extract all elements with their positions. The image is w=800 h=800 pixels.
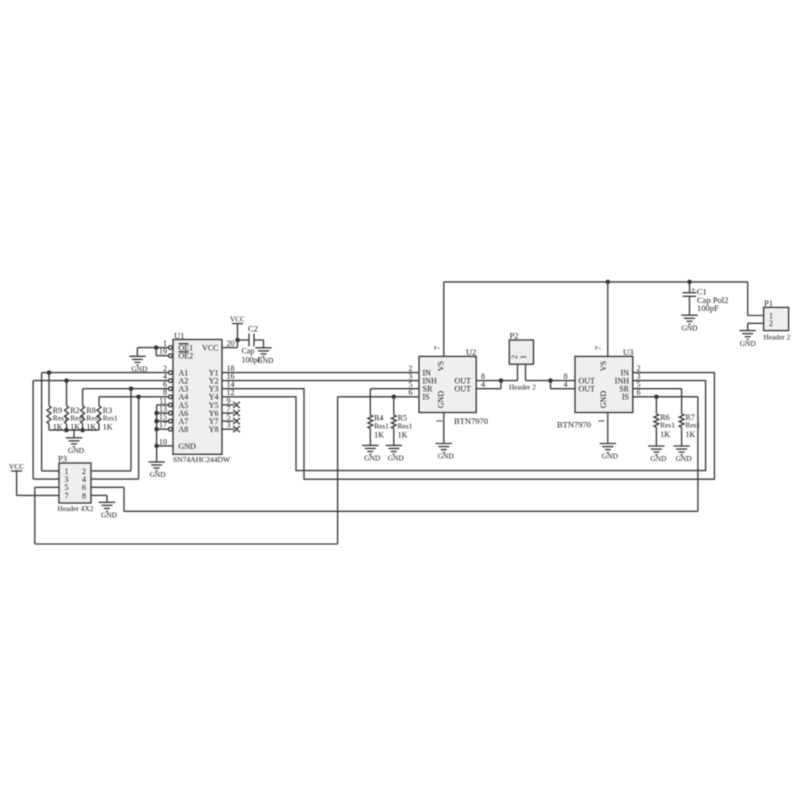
junction rail/C1 xyxy=(687,280,692,285)
svg-text:GND: GND xyxy=(179,442,197,451)
wire A2 net xyxy=(33,381,169,480)
svg-text:1: 1 xyxy=(597,419,606,423)
junction A4/P3.4 xyxy=(136,395,141,400)
svg-text:1K: 1K xyxy=(685,430,695,439)
ground C2 xyxy=(255,348,274,365)
svg-text:IS: IS xyxy=(622,393,629,402)
ground R5 xyxy=(386,445,405,462)
svg-text:GND: GND xyxy=(101,511,118,520)
wire to C2 xyxy=(238,339,250,341)
resistor R3 Res1 1K xyxy=(97,406,118,432)
svg-text:GND: GND xyxy=(650,454,667,463)
U1 input pin bubbles xyxy=(169,346,173,431)
junction rail/U3.VS xyxy=(606,280,611,285)
wire U3.VS to rail xyxy=(607,282,609,357)
wire A1 net xyxy=(42,373,170,471)
resistor R8 Res1 1K xyxy=(81,406,102,432)
connector P3 Header 4X2 xyxy=(58,454,94,514)
junction A2/R2 xyxy=(64,378,69,383)
svg-text:10: 10 xyxy=(159,437,167,446)
connector P1 Header 2 xyxy=(764,298,791,342)
svg-text:Res1: Res1 xyxy=(685,421,700,430)
wire C2 to ground xyxy=(254,340,264,348)
ground R4 xyxy=(362,445,381,462)
wire Y2 to U2.INH xyxy=(222,380,419,382)
wire resistor common rail xyxy=(49,430,99,438)
U1 pin numbers xyxy=(159,339,235,446)
svg-text:Header 4X2: Header 4X2 xyxy=(58,504,94,513)
svg-text:1: 1 xyxy=(519,355,528,359)
svg-text:P2: P2 xyxy=(510,330,519,340)
junction A7 xyxy=(154,419,159,424)
svg-text:VS: VS xyxy=(437,361,446,371)
ground U2 xyxy=(436,444,455,461)
wire A3 net xyxy=(83,389,170,471)
wire VS power rail xyxy=(444,282,764,316)
U3 pin numbers xyxy=(564,346,641,423)
capacitor C1 Cap Pol2 100pF xyxy=(683,282,729,315)
svg-text:100pF: 100pF xyxy=(697,303,719,313)
junction R2 bottom xyxy=(64,428,69,433)
wire A5-A8 to ground xyxy=(157,405,173,462)
svg-text:3: 3 xyxy=(227,421,231,430)
resistor R2 Res1 1K xyxy=(65,381,86,432)
svg-text:P3: P3 xyxy=(58,454,67,464)
wire U3.GND to ground xyxy=(607,413,609,444)
resistor R6 Res1 1K xyxy=(654,397,675,446)
svg-text:GND: GND xyxy=(438,452,455,461)
junction pin10 xyxy=(154,444,159,449)
junction A8 xyxy=(154,427,159,432)
svg-text:Res1: Res1 xyxy=(660,421,675,430)
wire P3 pin6 to U3.IS xyxy=(91,397,698,512)
svg-text:VS: VS xyxy=(599,361,608,371)
svg-text:1K: 1K xyxy=(374,430,384,439)
svg-text:BTN7970: BTN7970 xyxy=(557,420,591,430)
wire U2.OUT pins tied xyxy=(476,381,517,389)
wire P3 pin5 to U2.IS xyxy=(35,397,338,544)
ground R7 xyxy=(673,446,692,463)
svg-text:4: 4 xyxy=(564,380,568,389)
svg-text:2: 2 xyxy=(769,319,773,328)
svg-text:VCC: VCC xyxy=(9,462,24,471)
svg-text:Res1: Res1 xyxy=(103,413,118,422)
svg-text:GND: GND xyxy=(599,391,608,409)
svg-text:Cap: Cap xyxy=(242,347,255,356)
IC U2 BTN7970 half-bridge driver xyxy=(419,347,488,426)
svg-text:U1: U1 xyxy=(174,331,184,341)
wire A4 net xyxy=(91,397,169,479)
wire Y3 to U3.IN xyxy=(222,373,714,480)
ground R-rail xyxy=(66,438,85,455)
svg-text:2: 2 xyxy=(510,355,519,359)
resistor R9 Res1 1K xyxy=(47,373,68,432)
svg-text:19: 19 xyxy=(159,347,167,356)
svg-text:7: 7 xyxy=(65,491,69,500)
svg-text:GND: GND xyxy=(676,454,693,463)
svg-text:6: 6 xyxy=(637,388,641,397)
resistor R7 Res1 1K xyxy=(679,413,700,446)
svg-text:IS: IS xyxy=(423,393,430,402)
wire U2.SR to R4 xyxy=(370,389,419,415)
svg-text:P1: P1 xyxy=(764,298,773,308)
svg-text:GND: GND xyxy=(602,452,619,461)
svg-text:1K: 1K xyxy=(103,422,113,431)
svg-text:Res1: Res1 xyxy=(398,421,413,430)
svg-text:GND: GND xyxy=(740,339,757,348)
junction OE node xyxy=(154,345,159,350)
connector P2 Header 2 xyxy=(509,330,536,391)
junction A3/P3.2 xyxy=(129,386,134,391)
svg-text:20: 20 xyxy=(227,339,235,348)
wire U3.SR to R7 xyxy=(633,389,682,414)
svg-text:GND: GND xyxy=(364,454,381,463)
wire P2 to U3 OUT xyxy=(526,381,576,389)
power VCC P3 xyxy=(9,462,24,471)
ground P3-pin8 xyxy=(99,502,118,519)
svg-text:Res1: Res1 xyxy=(374,421,389,430)
svg-text:7: 7 xyxy=(594,346,603,350)
svg-text:Y8: Y8 xyxy=(209,425,219,434)
svg-text:17: 17 xyxy=(159,421,167,430)
svg-text:Header 2: Header 2 xyxy=(764,333,791,342)
resistor R4 Res1 1K xyxy=(368,414,389,446)
svg-text:GND: GND xyxy=(437,391,446,409)
svg-text:1K: 1K xyxy=(398,430,408,439)
junction VCC/C2 xyxy=(235,338,240,343)
IC U1 SN74AHC244DW octal buffer xyxy=(173,331,231,465)
ground U3 xyxy=(600,444,619,461)
svg-text:GND: GND xyxy=(150,470,167,479)
junction U3 OUT tie xyxy=(548,378,553,383)
svg-text:C2: C2 xyxy=(248,323,258,333)
svg-text:OE2: OE2 xyxy=(179,352,194,361)
svg-text:GND: GND xyxy=(681,323,698,332)
capacitor C2 Cap 100pF xyxy=(242,323,263,364)
svg-text:+: + xyxy=(691,285,696,294)
wire U2.IS xyxy=(338,396,419,398)
svg-text:BTN7970: BTN7970 xyxy=(454,416,488,426)
wire P2 pin stubs xyxy=(518,364,526,381)
wire VCC pin20 xyxy=(222,324,238,348)
svg-text:6: 6 xyxy=(409,388,413,397)
U2 pin numbers xyxy=(409,346,486,423)
wire OE1/OE2 to ground xyxy=(137,348,169,357)
svg-text:SN74AHC244DW: SN74AHC244DW xyxy=(173,455,231,464)
wire Y4 to U3.INH xyxy=(222,381,706,471)
svg-text:VCC: VCC xyxy=(202,344,218,353)
ground C1 xyxy=(681,315,698,332)
svg-text:U3: U3 xyxy=(623,347,633,357)
svg-text:1: 1 xyxy=(435,419,444,423)
svg-text:7: 7 xyxy=(433,346,442,350)
junction IS/R6 xyxy=(654,395,659,400)
svg-text:1K: 1K xyxy=(660,430,670,439)
junction A1/R9 xyxy=(47,370,52,375)
ground U1-pin10 xyxy=(148,462,166,479)
svg-text:8: 8 xyxy=(82,491,86,500)
svg-text:OUT: OUT xyxy=(455,385,472,394)
wire U3.IS xyxy=(633,396,698,398)
svg-text:VCC: VCC xyxy=(230,314,245,323)
wire P3 pin8 to ground xyxy=(91,495,107,502)
ground P1-pin2 xyxy=(740,331,757,348)
power VCC U1 xyxy=(230,314,245,323)
wire U2.GND to ground xyxy=(443,413,445,444)
junction IS/R5 xyxy=(392,395,397,400)
IC U3 BTN7970 half-bridge driver xyxy=(557,347,633,430)
resistor R5 Res1 1K xyxy=(391,397,412,446)
svg-text:A8: A8 xyxy=(179,425,189,434)
svg-text:GND: GND xyxy=(257,356,274,365)
junction A6 xyxy=(154,411,159,416)
ground U1-OE xyxy=(129,356,148,373)
svg-text:GND: GND xyxy=(388,454,405,463)
wire Y1 to U2.IN xyxy=(222,372,419,374)
svg-text:OUT: OUT xyxy=(579,385,596,394)
wire U2.VS to rail xyxy=(443,282,445,357)
svg-text:U2: U2 xyxy=(466,347,476,357)
ground R6 xyxy=(648,446,667,463)
wire P1 pin2 to ground xyxy=(748,323,764,330)
svg-text:Header 2: Header 2 xyxy=(509,383,536,392)
wire VCC to P3 pin7 xyxy=(17,471,59,495)
svg-text:GND: GND xyxy=(68,446,85,455)
no-connect X marks Y5-Y8 xyxy=(222,402,240,433)
junction U2 OUT tie xyxy=(499,378,504,383)
junction R8 bottom xyxy=(80,428,85,433)
